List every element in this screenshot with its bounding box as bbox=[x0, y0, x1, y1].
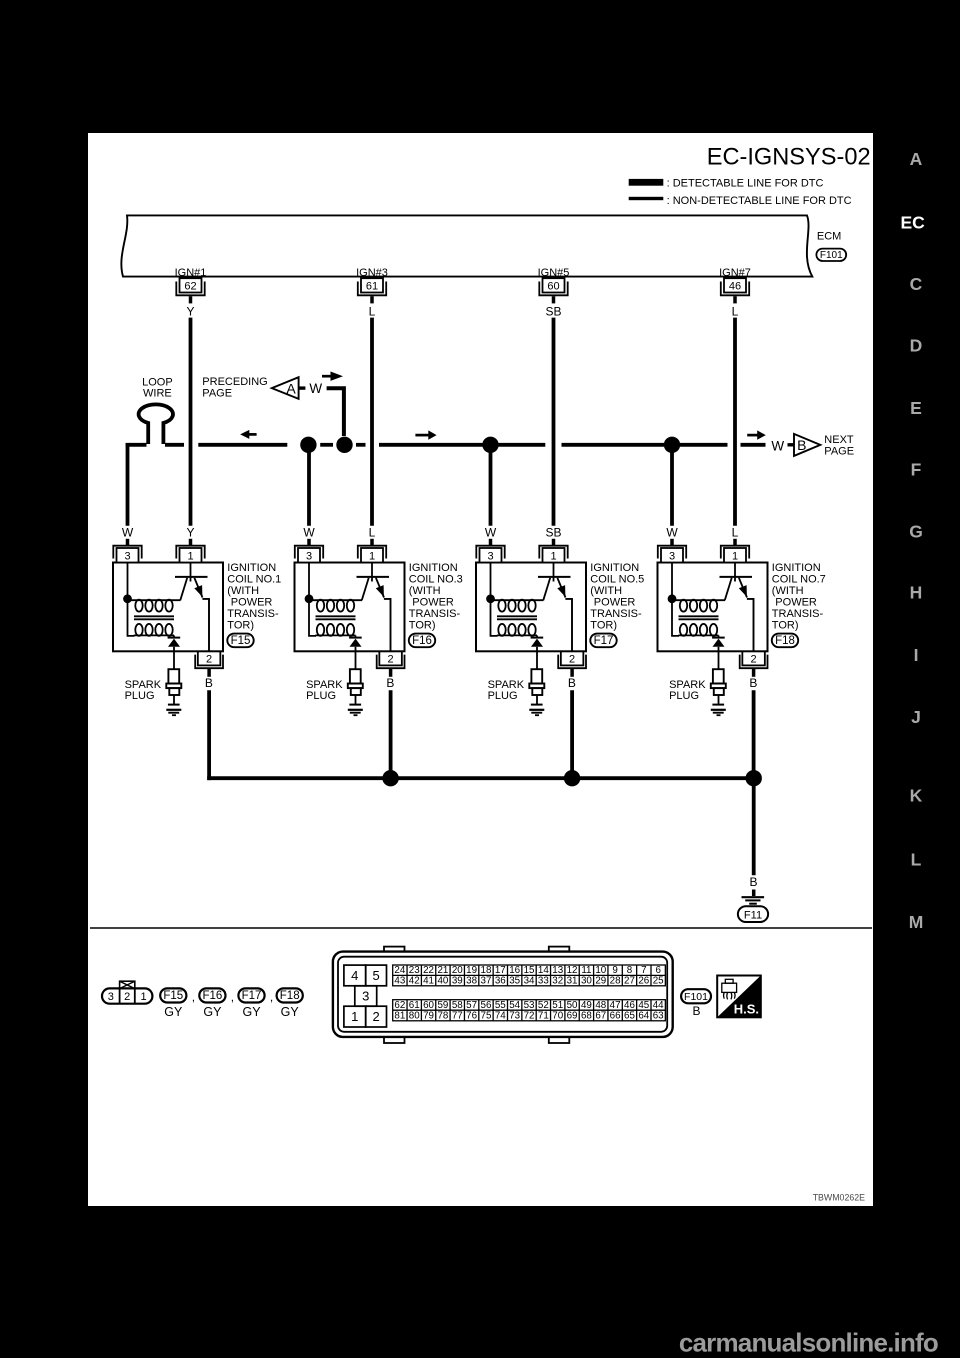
svg-text:H: H bbox=[910, 583, 923, 603]
svg-text:56: 56 bbox=[481, 1000, 492, 1011]
flow arrow right bbox=[747, 434, 758, 437]
svg-text:GY: GY bbox=[242, 1005, 261, 1019]
svg-text:NEXT: NEXT bbox=[824, 434, 854, 446]
svg-text:76: 76 bbox=[466, 1011, 477, 1022]
svg-text:44: 44 bbox=[653, 1000, 664, 1011]
svg-text:COIL NO.7: COIL NO.7 bbox=[772, 574, 826, 586]
svg-text:16: 16 bbox=[509, 965, 520, 976]
svg-text:WIRE: WIRE bbox=[143, 387, 172, 399]
svg-text:43: 43 bbox=[394, 976, 405, 987]
svg-text:L: L bbox=[911, 850, 922, 870]
svg-text:72: 72 bbox=[524, 1011, 535, 1022]
svg-text:7: 7 bbox=[641, 965, 646, 976]
svg-text:Y: Y bbox=[186, 526, 194, 540]
svg-text:40: 40 bbox=[437, 976, 448, 987]
svg-text:F: F bbox=[911, 460, 922, 480]
svg-text:E: E bbox=[910, 398, 922, 418]
svg-text:24: 24 bbox=[394, 965, 405, 976]
svg-text:33: 33 bbox=[538, 976, 549, 987]
svg-text:4: 4 bbox=[351, 968, 358, 983]
svg-text:30: 30 bbox=[581, 976, 592, 987]
svg-text:80: 80 bbox=[409, 1011, 420, 1022]
svg-text:41: 41 bbox=[423, 976, 434, 987]
sidebar index bbox=[900, 149, 925, 932]
bus junction dots bbox=[300, 437, 316, 453]
svg-text:3: 3 bbox=[108, 991, 114, 1003]
connector F18 bbox=[277, 988, 303, 1002]
svg-text:60: 60 bbox=[423, 1000, 434, 1011]
svg-text:38: 38 bbox=[466, 976, 477, 987]
ECM connector view F101 bbox=[333, 947, 673, 1043]
svg-text:13: 13 bbox=[552, 965, 563, 976]
legend detectable bbox=[629, 179, 664, 186]
svg-text:H.S.: H.S. bbox=[734, 1002, 759, 1017]
svg-text:F101: F101 bbox=[684, 991, 708, 1003]
svg-text:62: 62 bbox=[394, 1000, 405, 1011]
svg-text:29: 29 bbox=[595, 976, 606, 987]
svg-text:F11: F11 bbox=[744, 909, 762, 921]
svg-text:70: 70 bbox=[552, 1011, 563, 1022]
svg-text:EC: EC bbox=[900, 212, 925, 232]
svg-text:34: 34 bbox=[524, 976, 535, 987]
svg-text:31: 31 bbox=[567, 976, 578, 987]
svg-text:61: 61 bbox=[409, 1000, 420, 1011]
page connector triangle B bbox=[794, 434, 820, 456]
svg-text:79: 79 bbox=[423, 1011, 434, 1022]
svg-text:F16: F16 bbox=[412, 635, 432, 647]
svg-text:COIL NO.1: COIL NO.1 bbox=[227, 574, 281, 586]
svg-text:,: , bbox=[192, 990, 195, 1004]
svg-text:L: L bbox=[369, 305, 376, 319]
svg-text:15: 15 bbox=[524, 965, 535, 976]
svg-text:55: 55 bbox=[495, 1000, 506, 1011]
svg-text:D: D bbox=[910, 336, 923, 356]
svg-text:W: W bbox=[771, 439, 784, 454]
svg-text:58: 58 bbox=[452, 1000, 463, 1011]
svg-text:66: 66 bbox=[610, 1011, 621, 1022]
svg-text:Y: Y bbox=[186, 305, 194, 319]
svg-text:42: 42 bbox=[409, 976, 420, 987]
legend non-detectable bbox=[629, 197, 664, 200]
svg-text:F18: F18 bbox=[775, 635, 795, 647]
svg-text:20: 20 bbox=[452, 965, 463, 976]
svg-text:C: C bbox=[910, 274, 923, 294]
svg-text:62: 62 bbox=[184, 281, 196, 293]
svg-text:TBWM0262E: TBWM0262E bbox=[813, 1193, 865, 1203]
svg-text:28: 28 bbox=[610, 976, 621, 987]
svg-text:3: 3 bbox=[362, 989, 369, 1004]
svg-text:F17: F17 bbox=[242, 990, 262, 1002]
wire B to ground bbox=[752, 778, 756, 875]
svg-text:L: L bbox=[732, 305, 739, 319]
svg-text:74: 74 bbox=[495, 1011, 506, 1022]
svg-text:45: 45 bbox=[638, 1000, 649, 1011]
svg-text:48: 48 bbox=[595, 1000, 606, 1011]
svg-text:,: , bbox=[270, 990, 273, 1004]
svg-text:47: 47 bbox=[610, 1000, 621, 1011]
ignition coil NO.1 with power transistor (F15) bbox=[113, 318, 279, 780]
svg-text:51: 51 bbox=[552, 1000, 563, 1011]
connector F17 bbox=[238, 988, 264, 1002]
svg-text:F15: F15 bbox=[231, 635, 251, 647]
svg-text:6: 6 bbox=[655, 965, 661, 976]
svg-text:21: 21 bbox=[437, 965, 448, 976]
svg-text:46: 46 bbox=[729, 281, 741, 293]
svg-text:: NON-DETECTABLE LINE FOR DTC: : NON-DETECTABLE LINE FOR DTC bbox=[667, 195, 852, 207]
svg-text:22: 22 bbox=[423, 965, 434, 976]
svg-text:14: 14 bbox=[538, 965, 549, 976]
svg-text:B: B bbox=[797, 437, 806, 453]
connector F101 bbox=[816, 249, 846, 261]
svg-text:25: 25 bbox=[653, 976, 664, 987]
svg-text:77: 77 bbox=[452, 1011, 463, 1022]
page connector triangle A bbox=[272, 377, 299, 399]
svg-text:57: 57 bbox=[466, 1000, 477, 1011]
svg-text:32: 32 bbox=[552, 976, 563, 987]
svg-text:PAGE: PAGE bbox=[824, 446, 854, 458]
svg-text:52: 52 bbox=[538, 1000, 549, 1011]
flow arrow mid bbox=[415, 434, 429, 437]
svg-text:GY: GY bbox=[164, 1005, 183, 1019]
svg-text:60: 60 bbox=[547, 281, 559, 293]
svg-text:J: J bbox=[911, 707, 921, 727]
H.S. badge bbox=[717, 976, 761, 1018]
svg-text:G: G bbox=[909, 521, 923, 541]
svg-text:23: 23 bbox=[409, 965, 420, 976]
svg-text:W: W bbox=[309, 381, 322, 396]
svg-text:9: 9 bbox=[612, 965, 617, 976]
svg-text:L: L bbox=[732, 526, 739, 540]
svg-text:12: 12 bbox=[567, 965, 578, 976]
svg-text:SB: SB bbox=[545, 305, 561, 319]
svg-text:: DETECTABLE LINE FOR DTC: : DETECTABLE LINE FOR DTC bbox=[667, 177, 824, 189]
svg-text:L: L bbox=[369, 526, 376, 540]
svg-text:SB: SB bbox=[545, 526, 561, 540]
svg-text:F18: F18 bbox=[280, 990, 300, 1002]
svg-text:A: A bbox=[910, 149, 923, 169]
svg-text:carmanualsonline.info: carmanualsonline.info bbox=[679, 1328, 938, 1358]
svg-text:B: B bbox=[692, 1004, 700, 1018]
diagram panel bbox=[88, 133, 873, 1206]
junction dots bbox=[382, 770, 398, 786]
connector F101 view bbox=[681, 989, 711, 1003]
svg-text:2: 2 bbox=[372, 1009, 379, 1024]
svg-text:39: 39 bbox=[452, 976, 463, 987]
svg-text:8: 8 bbox=[627, 965, 633, 976]
svg-text:71: 71 bbox=[538, 1011, 549, 1022]
separator line bbox=[90, 927, 872, 929]
svg-text:A: A bbox=[286, 380, 296, 396]
ground bus B bbox=[207, 776, 754, 780]
svg-text:27: 27 bbox=[624, 976, 635, 987]
svg-text:K: K bbox=[910, 786, 923, 806]
svg-text:18: 18 bbox=[481, 965, 492, 976]
svg-text:68: 68 bbox=[581, 1011, 592, 1022]
svg-text:65: 65 bbox=[624, 1011, 635, 1022]
svg-text:ECM: ECM bbox=[817, 230, 841, 242]
svg-text:54: 54 bbox=[509, 1000, 520, 1011]
ignition coil NO.3 with power transistor (F16) bbox=[295, 318, 461, 780]
svg-text:1: 1 bbox=[351, 1009, 358, 1024]
svg-text:5: 5 bbox=[372, 968, 379, 983]
svg-text:73: 73 bbox=[509, 1011, 520, 1022]
svg-text:M: M bbox=[909, 912, 924, 932]
svg-text:GY: GY bbox=[203, 1005, 222, 1019]
svg-text:10: 10 bbox=[595, 965, 606, 976]
loop wire bbox=[139, 404, 173, 444]
svg-text:81: 81 bbox=[394, 1011, 405, 1022]
ground F11 bbox=[742, 896, 765, 898]
flow arrow left bbox=[248, 433, 257, 436]
svg-text:COIL NO.5: COIL NO.5 bbox=[590, 574, 644, 586]
svg-text:PRECEDING: PRECEDING bbox=[202, 376, 267, 388]
ignition coil NO.7 with power transistor (F18) bbox=[658, 318, 824, 780]
svg-text:COIL NO.3: COIL NO.3 bbox=[409, 574, 463, 586]
svg-text:49: 49 bbox=[581, 1000, 592, 1011]
svg-text:37: 37 bbox=[481, 976, 492, 987]
svg-text:2: 2 bbox=[124, 991, 130, 1003]
svg-text:69: 69 bbox=[567, 1011, 578, 1022]
svg-text:F15: F15 bbox=[163, 990, 183, 1002]
svg-text:17: 17 bbox=[495, 965, 506, 976]
W bus wire bbox=[126, 443, 147, 447]
svg-text:35: 35 bbox=[509, 976, 520, 987]
svg-text:64: 64 bbox=[638, 1011, 649, 1022]
svg-text:F16: F16 bbox=[202, 990, 222, 1002]
svg-text:I: I bbox=[914, 645, 919, 665]
svg-text:75: 75 bbox=[481, 1011, 492, 1022]
svg-text:19: 19 bbox=[466, 965, 477, 976]
ignition coil NO.5 with power transistor (F17) bbox=[476, 318, 642, 780]
connector F15 bbox=[160, 988, 186, 1002]
svg-text:11: 11 bbox=[581, 965, 591, 976]
svg-text:F101: F101 bbox=[820, 250, 843, 261]
svg-text:B: B bbox=[749, 875, 757, 889]
svg-text:GY: GY bbox=[281, 1005, 300, 1019]
svg-text:36: 36 bbox=[495, 976, 506, 987]
connector F16 bbox=[199, 988, 225, 1002]
svg-text:61: 61 bbox=[366, 281, 378, 293]
svg-text:,: , bbox=[231, 990, 234, 1004]
svg-text:46: 46 bbox=[624, 1000, 635, 1011]
ECM bbox=[121, 215, 812, 276]
svg-text:EC-IGNSYS-02: EC-IGNSYS-02 bbox=[707, 145, 871, 171]
svg-text:F17: F17 bbox=[594, 635, 614, 647]
coil connector view (3 2 1) bbox=[120, 981, 135, 988]
svg-text:1: 1 bbox=[141, 991, 147, 1003]
svg-text:63: 63 bbox=[653, 1011, 664, 1022]
flow arrow bbox=[322, 375, 332, 378]
svg-text:67: 67 bbox=[595, 1011, 606, 1022]
wire elbow to bus bbox=[327, 388, 344, 436]
svg-text:26: 26 bbox=[638, 976, 649, 987]
svg-text:50: 50 bbox=[567, 1000, 578, 1011]
svg-text:53: 53 bbox=[524, 1000, 535, 1011]
svg-text:78: 78 bbox=[437, 1011, 448, 1022]
svg-text:PAGE: PAGE bbox=[202, 387, 232, 399]
svg-text:59: 59 bbox=[437, 1000, 448, 1011]
